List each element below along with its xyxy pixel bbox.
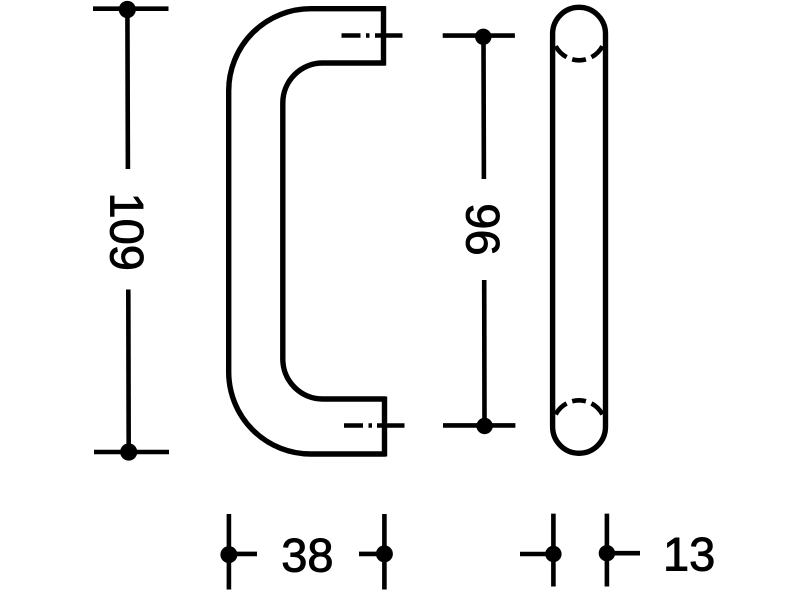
svg-text:13: 13 xyxy=(663,528,715,581)
dimension 109: top extension line xyxy=(93,6,169,11)
handle front view: hidden circle at bottom (dashed) xyxy=(556,400,603,414)
svg-text:109: 109 xyxy=(101,193,154,271)
dimension 13: left terminator dot xyxy=(545,546,561,562)
dimension 38: right extension line xyxy=(382,514,387,590)
bottom centerline (dash-dot) xyxy=(344,423,405,428)
dimension 38: left extension line xyxy=(227,514,232,590)
dimension 13: right extension line xyxy=(605,514,610,587)
dimension 96: bottom extension bar xyxy=(443,423,515,428)
dimension 96: bottom terminator dot xyxy=(476,418,492,434)
dimension 109: bottom extension line xyxy=(94,450,169,455)
dimension 96: dimension line upper segment xyxy=(481,37,486,179)
handle side view: outer contour xyxy=(229,9,386,454)
dimension 96: top extension bar xyxy=(443,33,515,38)
dimension 38: right terminator dot xyxy=(376,545,393,562)
dimension 38: left terminator dot xyxy=(220,546,237,563)
dimension 109: top terminator dot xyxy=(119,1,136,18)
dimension 96: dimension line lower segment xyxy=(482,280,487,426)
dimension 109: bottom terminator dot xyxy=(120,443,137,460)
handle side view: top right end face xyxy=(381,6,386,65)
dimension 109: dimension line lower segment xyxy=(126,290,131,453)
dimension 38: left stub line xyxy=(229,552,257,557)
svg-text:96: 96 xyxy=(457,203,510,255)
dimension 13: left stub line xyxy=(520,552,553,557)
dimension 109: dimension line upper segment xyxy=(125,10,130,170)
top centerline (dash-dot) xyxy=(342,33,403,38)
handle front view: capsule outline xyxy=(553,7,606,453)
dimension 13: right terminator dot xyxy=(599,545,615,561)
dimension 13: left extension line xyxy=(551,514,556,587)
dimension 96: top terminator dot xyxy=(475,29,491,45)
svg-text:38: 38 xyxy=(281,529,333,582)
handle side view: bottom right end face xyxy=(382,397,387,457)
handle front view: hidden circle at top (dashed) xyxy=(556,46,603,60)
handle side view: inner contour xyxy=(283,63,386,399)
dimension 13: right stub line xyxy=(607,551,640,556)
dimension 38: right stub line xyxy=(359,552,384,557)
